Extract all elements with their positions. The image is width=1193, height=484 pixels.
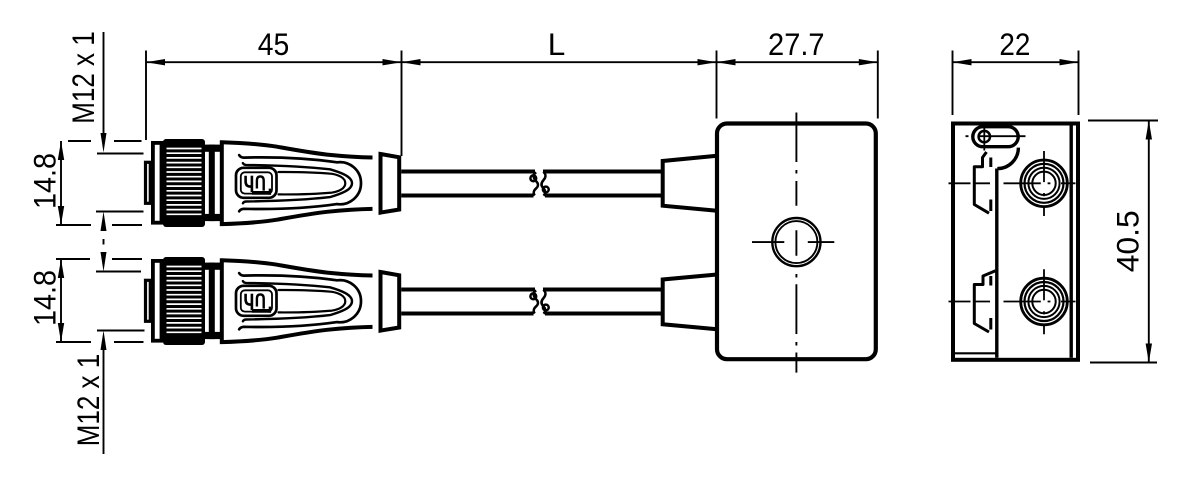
leader M12 top xyxy=(103,32,105,140)
box circle crosshair horizontal xyxy=(752,241,834,243)
cable 1 break right xyxy=(542,172,549,196)
extension line at 146 xyxy=(145,51,147,141)
extension line at 716.5 xyxy=(716,51,718,119)
lower port xyxy=(1021,269,1068,334)
upper port xyxy=(1021,151,1068,216)
mounting slot xyxy=(973,127,1018,147)
box circle xyxy=(772,218,820,266)
cable 2 left segment xyxy=(401,290,535,314)
witness nut2 bottom xyxy=(56,341,144,343)
lower gland bracket xyxy=(974,271,995,332)
arrows left dims xyxy=(58,133,107,350)
witness 40.5 top xyxy=(1088,120,1158,122)
extension line at 952.5 xyxy=(952,51,954,116)
slot horizontal centerline xyxy=(966,135,1026,137)
svg-text:22: 22 xyxy=(999,26,1030,62)
witness thread2 top xyxy=(96,271,141,273)
slot vertical centerline xyxy=(983,122,985,151)
svg-text:L: L xyxy=(548,26,566,62)
leader M12 middle dash xyxy=(103,239,105,245)
witness thread2 bottom xyxy=(97,330,145,332)
svg-text:27.7: 27.7 xyxy=(768,26,825,62)
svg-text:M12 x 1: M12 x 1 xyxy=(70,354,106,447)
upper gland bracket xyxy=(974,152,989,213)
svg-text:14.8: 14.8 xyxy=(27,270,63,326)
svg-text:14.8: 14.8 xyxy=(27,153,63,209)
dim line 14.8 #1 xyxy=(60,141,62,225)
box outline xyxy=(717,124,876,360)
side bottom notch xyxy=(953,352,996,354)
cable 1 left segment xyxy=(401,172,535,196)
side inner face line xyxy=(1069,126,1072,358)
strain relief 1 xyxy=(663,156,717,211)
svg-text:40.5: 40.5 xyxy=(1110,210,1146,272)
witness nut1 top xyxy=(68,140,142,142)
inner vertical line xyxy=(995,169,998,358)
dim line 45/L/27.7 xyxy=(146,61,878,63)
slot screw hole xyxy=(979,131,990,142)
leader M12 bottom xyxy=(103,343,105,454)
cable 1 break left xyxy=(530,173,538,196)
extension line at 401.5 xyxy=(401,51,403,157)
witness 40.5 bottom xyxy=(1090,362,1157,364)
witness thread1 top xyxy=(97,153,144,155)
svg-text:M12 x 1: M12 x 1 xyxy=(65,31,101,124)
box vertical dash-dot axis xyxy=(795,113,797,373)
cable 2 right segment xyxy=(543,290,661,314)
witness nut1 bottom xyxy=(56,224,142,226)
strain relief 2 xyxy=(663,275,717,330)
cable 2 break right xyxy=(542,290,549,314)
side centerline upper xyxy=(949,182,1076,184)
cable 1 right segment xyxy=(543,172,661,196)
dim line 14.8 #2 xyxy=(60,259,62,342)
dimension arrows top xyxy=(146,59,1079,65)
slot arc xyxy=(997,148,1018,169)
extension line at 1078.5 xyxy=(1078,51,1080,116)
svg-text:45: 45 xyxy=(258,26,290,62)
witness nut2 top xyxy=(56,258,142,260)
arrows 40.5 xyxy=(1146,121,1152,363)
side outline xyxy=(953,124,1078,360)
extension line at 877.8 xyxy=(877,51,879,119)
side centerline lower xyxy=(949,301,1076,303)
connector 2 xyxy=(146,257,400,345)
dim line 40.5 xyxy=(1148,121,1150,363)
cable 2 break left xyxy=(530,291,538,314)
witness thread1 bottom xyxy=(96,211,144,213)
dim line 22 xyxy=(953,61,1079,63)
